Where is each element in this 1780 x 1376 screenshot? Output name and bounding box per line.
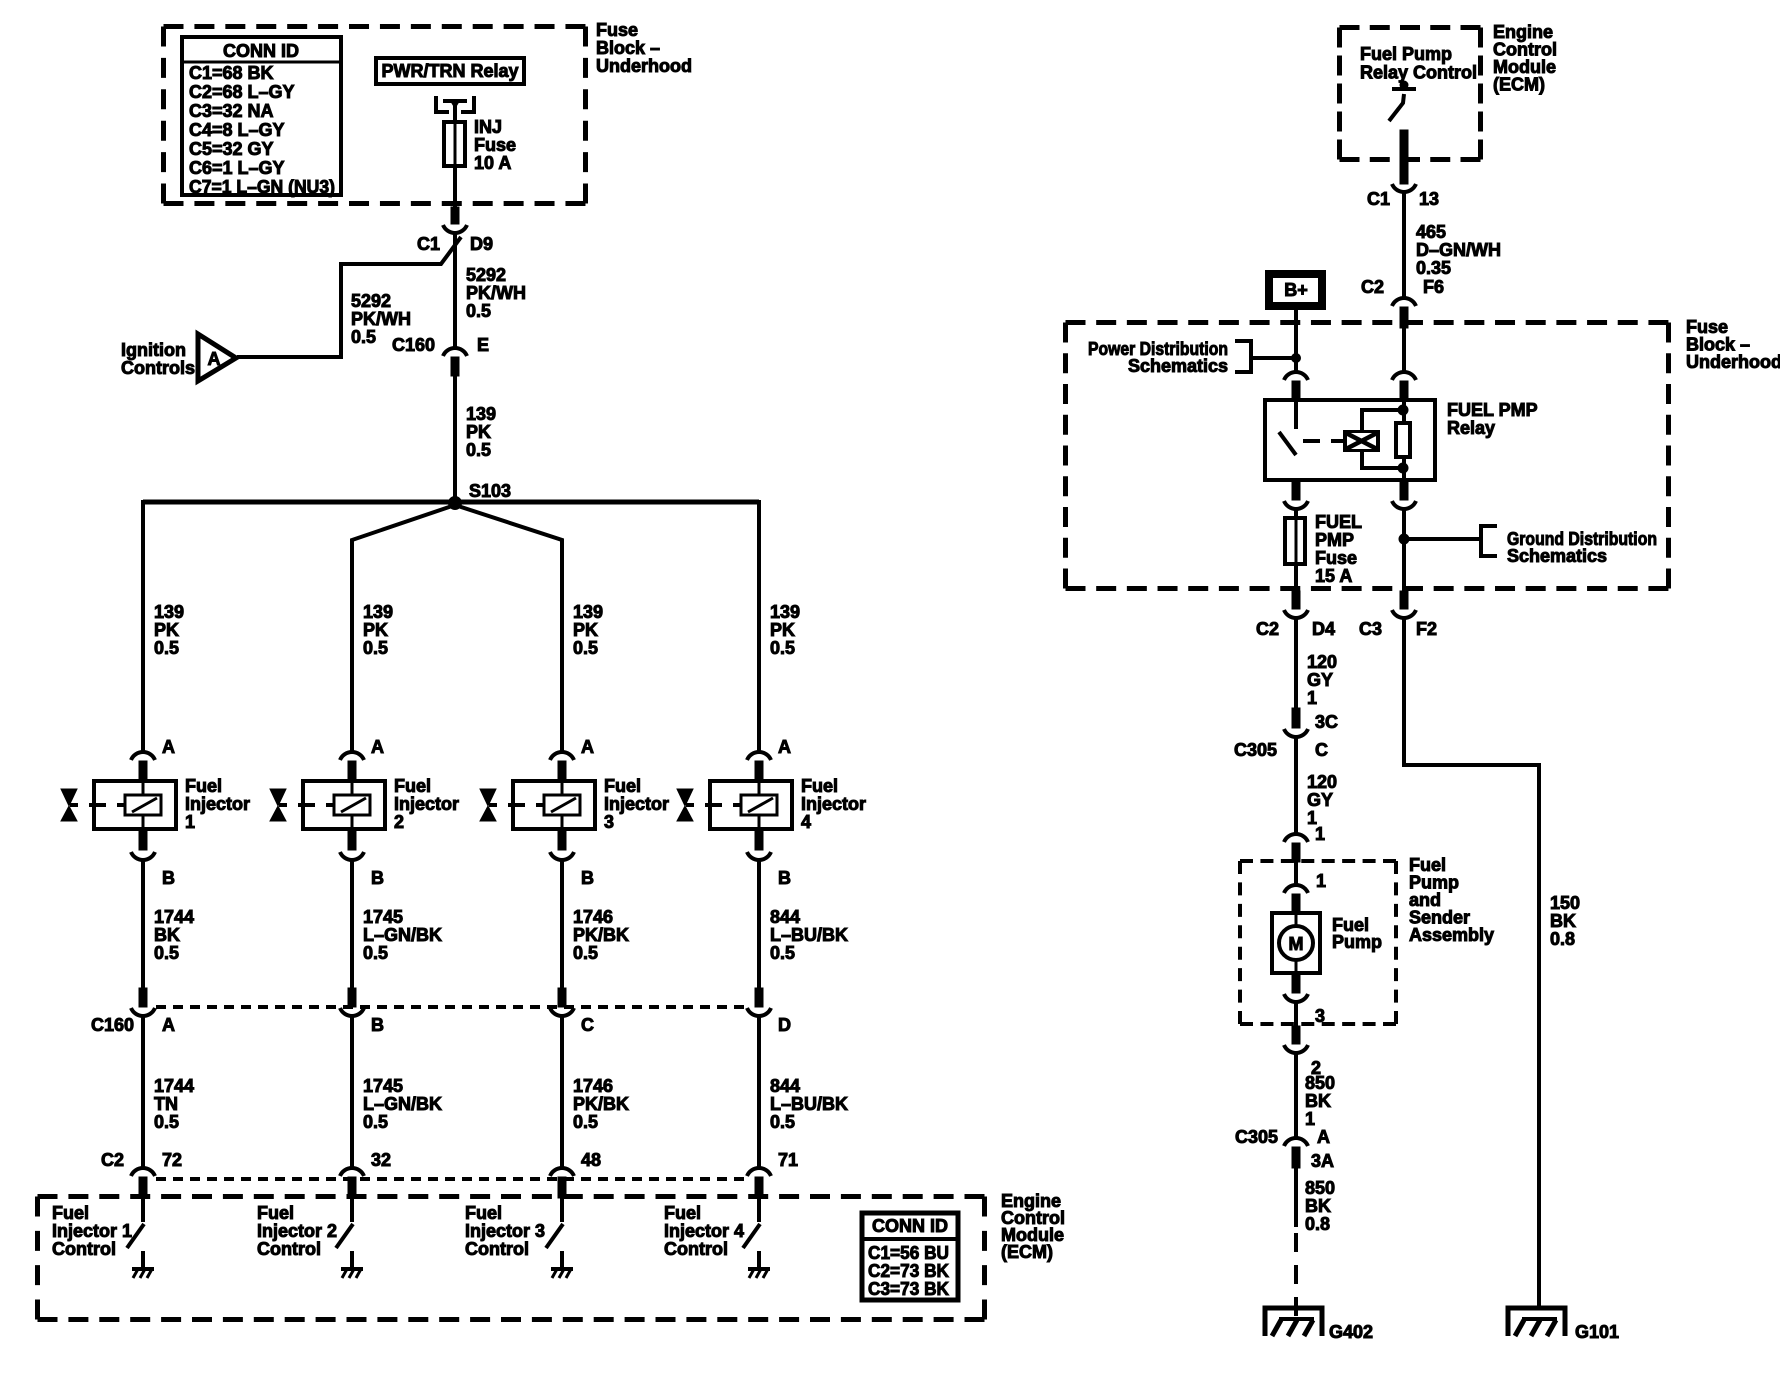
dashed connector line C160 [156, 1005, 747, 1009]
connector pin A of injector 3 [550, 752, 574, 760]
svg-text:0.5: 0.5 [363, 943, 388, 963]
fuel injector 2 dashed actuation line [279, 803, 287, 807]
svg-text:Fuel: Fuel [801, 776, 838, 796]
svg-text:C3=73 BK: C3=73 BK [868, 1279, 949, 1299]
svg-text:Fuel: Fuel [664, 1203, 701, 1223]
svg-text:Pump: Pump [1332, 932, 1382, 952]
svg-text:PK/WH: PK/WH [466, 283, 526, 303]
svg-text:Fuse: Fuse [1315, 548, 1357, 568]
svg-text:C7=1 L–GN (NU3): C7=1 L–GN (NU3) [189, 177, 335, 197]
svg-text:PK: PK [363, 620, 388, 640]
fuse INJ 10A [444, 122, 465, 166]
svg-text:Injector 4: Injector 4 [664, 1221, 744, 1241]
svg-text:0.35: 0.35 [1416, 258, 1451, 278]
wire: 850 BK 0.8 [1294, 1168, 1298, 1227]
ECM internal ground (injector 3) [551, 1267, 573, 1271]
svg-text:(ECM): (ECM) [1493, 75, 1545, 95]
svg-text:Fuse: Fuse [596, 20, 638, 40]
wire: bus to injector 4 [757, 500, 761, 752]
svg-text:S103: S103 [469, 481, 511, 501]
wire: 150 BK 0.8 to G101 [1404, 617, 1539, 1308]
svg-text:4: 4 [801, 812, 811, 832]
svg-text:C160: C160 [392, 335, 435, 355]
svg-text:Fuel: Fuel [257, 1203, 294, 1223]
svg-text:B+: B+ [1284, 280, 1308, 300]
svg-text:0.5: 0.5 [154, 943, 179, 963]
svg-text:D4: D4 [1312, 619, 1335, 639]
wire: injector 3 to C160 [560, 859, 564, 990]
wire: relay right to C3/F2 [1402, 508, 1406, 593]
connector C160/E pin stub [451, 357, 459, 376]
svg-text:150: 150 [1550, 893, 1580, 913]
connector pin B of injector 4 [755, 831, 763, 850]
svg-text:C: C [581, 1015, 594, 1035]
svg-text:1: 1 [1315, 824, 1325, 844]
fuel pump and sender assembly dashed box [1240, 859, 1396, 863]
svg-text:Injector: Injector [604, 794, 669, 814]
svg-text:A: A [778, 737, 791, 757]
wire: S103 bus horizontal [143, 500, 759, 505]
svg-text:L–GN/BK: L–GN/BK [363, 925, 442, 945]
connector pin A of injector 2 [340, 752, 364, 760]
wire: 120 GY (lower) [1294, 736, 1298, 833]
connector ECM C2 pin 71 [747, 1168, 771, 1176]
svg-text:465: 465 [1416, 222, 1446, 242]
wire: S103 to injector 3 [455, 505, 562, 752]
svg-text:C1=68 BK: C1=68 BK [189, 63, 274, 83]
svg-text:Injector: Injector [801, 794, 866, 814]
relay switch contact [1294, 400, 1298, 429]
ECM internal ground (injector 1) [132, 1267, 154, 1271]
svg-text:PK/BK: PK/BK [573, 1094, 629, 1114]
svg-text:48: 48 [581, 1150, 601, 1170]
svg-text:Underhood: Underhood [1686, 352, 1780, 372]
svg-text:GY: GY [1307, 670, 1333, 690]
svg-text:G402: G402 [1329, 1322, 1373, 1342]
ECM (left) dashed box [38, 1194, 985, 1199]
power distribution bracket [1235, 341, 1251, 372]
PWR/TRN Relay box [376, 58, 524, 84]
svg-text:0.5: 0.5 [573, 638, 598, 658]
connector C160 pin C [558, 988, 566, 1007]
svg-text:F2: F2 [1416, 619, 1437, 639]
wire: relay to INJ fuse [453, 104, 457, 122]
svg-text:A: A [1317, 1127, 1330, 1147]
svg-text:0.5: 0.5 [351, 327, 376, 347]
connector: fuel pump pin 1 (inner) [1284, 885, 1308, 893]
svg-text:13: 13 [1419, 189, 1439, 209]
svg-text:139: 139 [154, 602, 184, 622]
svg-text:1745: 1745 [363, 1076, 403, 1096]
wire: bus to injector 1 [141, 500, 145, 752]
svg-text:120: 120 [1307, 652, 1337, 672]
svg-text:C1: C1 [1367, 189, 1390, 209]
fuel injector 3 coil [561, 783, 564, 795]
svg-text:C305: C305 [1234, 740, 1277, 760]
connector pin B of injector 1 [139, 831, 147, 850]
svg-text:1744: 1744 [154, 1076, 194, 1096]
wire: pump to assembly edge [1294, 1001, 1298, 1028]
svg-text:0.5: 0.5 [573, 943, 598, 963]
svg-text:844: 844 [770, 907, 800, 927]
svg-text:0.5: 0.5 [363, 638, 388, 658]
svg-text:Schematics: Schematics [1128, 356, 1228, 376]
svg-text:C2: C2 [1361, 277, 1384, 297]
svg-text:C2: C2 [1256, 619, 1279, 639]
svg-text:Assembly: Assembly [1409, 925, 1494, 945]
wire: 465 D-GN/WH [1402, 191, 1406, 297]
svg-text:Injector 2: Injector 2 [257, 1221, 337, 1241]
svg-text:C6=1 L–GY: C6=1 L–GY [189, 158, 285, 178]
svg-text:32: 32 [371, 1150, 391, 1170]
svg-text:GY: GY [1307, 790, 1333, 810]
svg-text:INJ: INJ [474, 117, 502, 137]
svg-text:C160: C160 [91, 1015, 134, 1035]
FUEL PMP relay box [1265, 400, 1435, 480]
relay coil [1345, 432, 1378, 450]
splice S103 [449, 497, 462, 510]
fuel injector 4 box [710, 781, 792, 829]
svg-text:B: B [371, 1015, 384, 1035]
ECM (right) dashed box [1340, 25, 1481, 30]
svg-text:FUEL: FUEL [1315, 512, 1362, 532]
svg-text:2: 2 [394, 812, 404, 832]
fuse block underhood (left) dashed box [164, 24, 586, 29]
fuse FUEL PMP 15A [1285, 518, 1305, 564]
ECM driver switch (fuel injector 3 control) [560, 1198, 564, 1222]
svg-text:1: 1 [185, 812, 195, 832]
connector: fuel pump pin 3 [1292, 975, 1300, 993]
ECM fuel pump relay driver switch [1392, 87, 1416, 91]
connector pin B of injector 3 [558, 831, 566, 850]
svg-text:0.5: 0.5 [573, 1112, 598, 1132]
svg-text:72: 72 [162, 1150, 182, 1170]
connector pin A of injector 1 [131, 752, 155, 760]
svg-text:0.5: 0.5 [363, 1112, 388, 1132]
svg-text:Injector: Injector [185, 794, 250, 814]
svg-text:A: A [162, 737, 175, 757]
svg-text:A: A [162, 1015, 175, 1035]
wire: C2/F6 to relay [1402, 328, 1406, 372]
connector C160 pin A [139, 988, 147, 1007]
svg-text:Controls: Controls [121, 358, 195, 378]
wire: C160 to ECM C2 (injector 2) [350, 1015, 354, 1167]
svg-text:1746: 1746 [573, 907, 613, 927]
junction: power distribution tap [1292, 354, 1301, 363]
svg-text:1: 1 [1316, 871, 1326, 891]
relay actuation dashed link [1303, 439, 1320, 443]
svg-text:Control: Control [664, 1239, 728, 1259]
connector ECM C2 pin 48 [550, 1168, 574, 1176]
svg-text:1: 1 [1305, 1109, 1315, 1129]
svg-text:A: A [208, 349, 221, 369]
svg-text:BK: BK [1305, 1091, 1331, 1111]
svg-text:139: 139 [363, 602, 393, 622]
svg-text:G101: G101 [1575, 1322, 1619, 1342]
svg-text:0.5: 0.5 [770, 943, 795, 963]
svg-text:Underhood: Underhood [596, 56, 692, 76]
connector: assembly pin 2 [1292, 1026, 1300, 1044]
connector ECM C2 pin 72 [131, 1168, 155, 1176]
relay resistor [1402, 400, 1406, 424]
fuel injector 4 nozzle bowtie [677, 789, 693, 806]
svg-text:A: A [371, 737, 384, 757]
svg-text:C1=56 BU: C1=56 BU [868, 1243, 949, 1263]
triangle A: Ignition Controls source [198, 334, 236, 381]
B+ power feed box [1269, 274, 1322, 306]
svg-text:C5=32 GY: C5=32 GY [189, 139, 274, 159]
connector pin A of injector 4 [747, 752, 771, 760]
wire: injector 2 to C160 [350, 859, 354, 990]
svg-text:A: A [581, 737, 594, 757]
connector C2/F6 [1392, 298, 1416, 306]
svg-text:C3: C3 [1359, 619, 1382, 639]
svg-text:Control: Control [465, 1239, 529, 1259]
svg-text:3: 3 [604, 812, 614, 832]
wire: B+ to relay [1294, 308, 1298, 372]
connector C3/F2 [1400, 591, 1408, 609]
svg-text:0.5: 0.5 [466, 440, 491, 460]
svg-text:1745: 1745 [363, 907, 403, 927]
svg-text:0.8: 0.8 [1550, 929, 1575, 949]
svg-text:BK: BK [154, 925, 180, 945]
svg-text:0.5: 0.5 [770, 1112, 795, 1132]
svg-text:BK: BK [1305, 1196, 1331, 1216]
wire: fuse to C2/D4 [1294, 564, 1298, 593]
fuel pump motor box [1272, 913, 1320, 973]
svg-text:PK: PK [154, 620, 179, 640]
svg-text:TN: TN [154, 1094, 178, 1114]
svg-text:120: 120 [1307, 772, 1337, 792]
svg-text:PK: PK [770, 620, 795, 640]
wire: into assembly [1294, 862, 1298, 884]
relay coil parallel branch [1362, 410, 1403, 431]
ECM driver switch (fuel injector 1 control) [141, 1198, 145, 1222]
svg-text:Control: Control [257, 1239, 321, 1259]
connector ECM C2 pin 32 [340, 1168, 364, 1176]
svg-text:Fuel: Fuel [394, 776, 431, 796]
fuel injector 4 coil [758, 783, 761, 795]
fuel injector 3 dashed actuation line [489, 803, 497, 807]
ground G402 [1265, 1308, 1322, 1336]
wire: S103 to injector 2 [352, 505, 455, 752]
svg-text:15 A: 15 A [1315, 566, 1352, 586]
svg-text:1744: 1744 [154, 907, 194, 927]
wire: C160 to ECM C2 (injector 4) [757, 1015, 761, 1167]
wire: 139 PK to S103 [453, 376, 457, 502]
connector C1/D9 [443, 225, 467, 233]
svg-text:Relay Control: Relay Control [1360, 63, 1477, 83]
svg-text:D9: D9 [470, 234, 493, 254]
svg-text:C4=8 L–GY: C4=8 L–GY [189, 120, 285, 140]
svg-text:D–GN/WH: D–GN/WH [1416, 240, 1501, 260]
wire: injector 1 to C160 [141, 859, 145, 990]
svg-text:0.5: 0.5 [154, 638, 179, 658]
svg-text:FUEL PMP: FUEL PMP [1447, 400, 1538, 420]
connector C1/13 [1392, 184, 1416, 192]
connector C160/E [443, 348, 467, 356]
wire: branch to ignition controls [237, 237, 461, 357]
svg-text:E: E [477, 335, 489, 355]
svg-text:C2=73 BK: C2=73 BK [868, 1261, 949, 1281]
fuel injector 1 coil [142, 783, 145, 795]
svg-text:Control: Control [52, 1239, 116, 1259]
wire: fuse to C1 connector [453, 166, 457, 207]
wire: relay to FUEL PMP fuse [1294, 508, 1298, 520]
svg-text:F6: F6 [1423, 277, 1444, 297]
fuel injector 2 box [303, 781, 385, 829]
CONN ID table (ECM) [862, 1213, 958, 1300]
svg-text:PK/BK: PK/BK [573, 925, 629, 945]
svg-text:C2: C2 [101, 1150, 124, 1170]
PWR/TRN relay contact symbol [436, 96, 449, 112]
fuse block underhood (right) dashed box [1066, 320, 1669, 325]
connector C160 pin D [755, 988, 763, 1007]
svg-text:CONN ID: CONN ID [872, 1216, 948, 1236]
CONN ID table (fuse block) [182, 37, 341, 195]
svg-text:139: 139 [573, 602, 603, 622]
svg-text:BK: BK [1550, 911, 1576, 931]
ECM internal ground (injector 4) [748, 1267, 770, 1271]
connector C160 pin B [348, 988, 356, 1007]
svg-text:PK/WH: PK/WH [351, 309, 411, 329]
junction: ground distribution tap [1399, 534, 1409, 544]
svg-text:0.8: 0.8 [1305, 1214, 1330, 1234]
svg-text:844: 844 [770, 1076, 800, 1096]
svg-text:PK: PK [573, 620, 598, 640]
wire: injector 4 to C160 [757, 859, 761, 990]
svg-text:10 A: 10 A [474, 153, 511, 173]
svg-text:Injector 3: Injector 3 [465, 1221, 545, 1241]
svg-text:3A: 3A [1311, 1151, 1334, 1171]
svg-text:Relay: Relay [1447, 418, 1495, 438]
svg-text:L–GN/BK: L–GN/BK [363, 1094, 442, 1114]
wire: C160 to ECM C2 (injector 1) [141, 1015, 145, 1167]
svg-text:Fuel: Fuel [52, 1203, 89, 1223]
svg-text:71: 71 [778, 1150, 798, 1170]
svg-text:850: 850 [1305, 1073, 1335, 1093]
svg-text:0.5: 0.5 [154, 1112, 179, 1132]
junction: coil branch bottom [1398, 463, 1408, 473]
junction: coil branch top [1398, 405, 1408, 415]
svg-text:139: 139 [770, 602, 800, 622]
svg-text:Block –: Block – [596, 38, 660, 58]
ECM internal ground (injector 2) [341, 1267, 363, 1271]
svg-text:1: 1 [1307, 688, 1317, 708]
fuel injector 2 coil [351, 783, 354, 795]
svg-text:PWR/TRN Relay: PWR/TRN Relay [381, 61, 518, 81]
svg-text:Schematics: Schematics [1507, 546, 1607, 566]
svg-text:C305: C305 [1235, 1127, 1278, 1147]
svg-text:B: B [581, 868, 594, 888]
connector: fuel pump assembly pin 1 (outer) [1284, 834, 1308, 842]
svg-text:850: 850 [1305, 1178, 1335, 1198]
fuel injector 4 dashed actuation line [686, 803, 694, 807]
svg-text:5292: 5292 [466, 265, 506, 285]
svg-text:Fuel: Fuel [604, 776, 641, 796]
ECM driver switch (fuel injector 4 control) [757, 1198, 761, 1222]
wire: 850 BK 1 [1294, 1052, 1298, 1137]
svg-text:L–BU/BK: L–BU/BK [770, 1094, 848, 1114]
connector: relay pin 1 (B+ side) [1284, 372, 1308, 380]
ground G101 [1508, 1308, 1565, 1336]
ground distribution bracket [1481, 526, 1497, 556]
fuel injector 1 dashed actuation line [70, 803, 78, 807]
svg-text:3: 3 [1315, 1006, 1325, 1026]
connector C305 3C/C [1292, 708, 1300, 728]
fuel injector 2 nozzle bowtie [270, 789, 286, 806]
connector: relay pin 2 (coil side) [1392, 372, 1416, 380]
svg-text:C2=68 L–GY: C2=68 L–GY [189, 82, 295, 102]
svg-text:Ignition: Ignition [121, 340, 186, 360]
svg-text:(ECM): (ECM) [1001, 1242, 1053, 1262]
svg-text:0.5: 0.5 [770, 638, 795, 658]
connector: relay output right [1400, 480, 1408, 500]
svg-text:5292: 5292 [351, 291, 391, 311]
svg-text:CONN ID: CONN ID [223, 41, 299, 61]
fuel injector 3 box [513, 781, 595, 829]
svg-text:Fuel: Fuel [185, 776, 222, 796]
svg-text:0.5: 0.5 [466, 301, 491, 321]
wire: 120 GY (upper) [1294, 617, 1298, 710]
svg-text:L–BU/BK: L–BU/BK [770, 925, 848, 945]
svg-text:Injector 1: Injector 1 [52, 1221, 132, 1241]
fuel injector 1 nozzle bowtie [61, 789, 77, 806]
svg-text:PK: PK [466, 422, 491, 442]
wire: C160 to ECM C2 (injector 3) [560, 1015, 564, 1167]
wire: dashed continuation to G402 [1294, 1233, 1298, 1318]
fuel pump motor [1295, 911, 1298, 927]
connector C305 A/3A [1284, 1138, 1308, 1146]
svg-text:C3=32 NA: C3=32 NA [189, 101, 274, 121]
connector pin B of injector 2 [348, 831, 356, 850]
connector C2/D4 [1292, 591, 1300, 609]
svg-text:PMP: PMP [1315, 530, 1354, 550]
svg-text:Injector: Injector [394, 794, 459, 814]
svg-text:M: M [1289, 934, 1304, 954]
svg-text:C: C [1315, 740, 1328, 760]
svg-text:C1: C1 [417, 234, 440, 254]
ECM driver switch (fuel injector 2 control) [350, 1198, 354, 1222]
svg-text:B: B [162, 868, 175, 888]
svg-text:1746: 1746 [573, 1076, 613, 1096]
fuel injector 3 nozzle bowtie [480, 789, 496, 806]
svg-text:3C: 3C [1315, 712, 1338, 732]
svg-text:B: B [371, 868, 384, 888]
connector: relay output left [1292, 480, 1300, 500]
svg-text:Fuse: Fuse [474, 135, 516, 155]
svg-text:B: B [778, 868, 791, 888]
dashed connector line ECM C2 [156, 1177, 747, 1181]
svg-text:D: D [778, 1015, 791, 1035]
wire: 5292 PK/WH vertical [453, 232, 457, 347]
fuel injector 1 box [94, 781, 176, 829]
connector C1/D9 pin stub [451, 207, 459, 224]
svg-text:Fuel: Fuel [465, 1203, 502, 1223]
svg-text:139: 139 [466, 404, 496, 424]
svg-text:Fuel Pump: Fuel Pump [1360, 44, 1452, 64]
